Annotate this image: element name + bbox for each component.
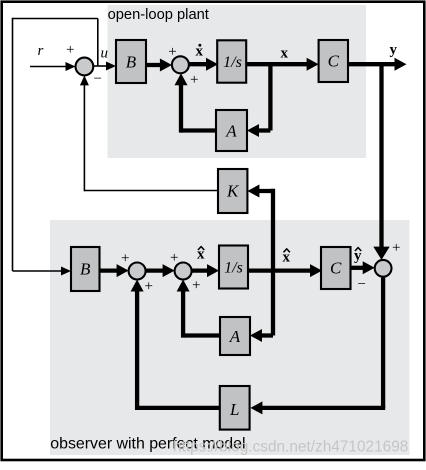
block K: [218, 169, 247, 213]
svg-text:−: −: [358, 277, 366, 293]
wire: observer B to S3 (thick): [100, 264, 129, 277]
svg-text:r: r: [38, 43, 44, 59]
svg-text:https://blog.csdn.net/zh471021: https://blog.csdn.net/zh471021698: [173, 439, 408, 456]
summing junction S2: [172, 56, 189, 73]
block A (observer): [220, 317, 250, 355]
label xhat (before 1/s): [197, 247, 205, 263]
label yhat: [354, 248, 362, 264]
svg-text:+: +: [145, 279, 153, 295]
svg-text:1/s: 1/s: [223, 54, 242, 71]
block 1/s (observer integrator): [219, 246, 248, 289]
svg-text:B: B: [80, 260, 91, 279]
wire: observer A output up into S4 (thick): [177, 280, 220, 338]
wire: y branch down into S5 (thick): [373, 62, 389, 260]
label xdot: [196, 43, 204, 59]
svg-text:C: C: [330, 259, 342, 278]
wire: C to y output (thick): [348, 58, 407, 71]
wire: observer 1/s to C with xhat node (thick): [248, 264, 322, 277]
block C (plant): [319, 40, 348, 82]
svg-text:+: +: [392, 240, 400, 256]
block B (plant): [116, 40, 146, 83]
svg-text:1/s: 1/s: [224, 260, 243, 277]
observer panel: [50, 220, 410, 455]
wire: S5 down and left to L (thick): [250, 276, 385, 414]
wire: xhat tap up into K (thick): [247, 185, 273, 336]
svg-text:+: +: [192, 278, 200, 294]
wire: K output to S1 (thin): [80, 75, 218, 191]
wire: xhat branch down into observer A (thick): [250, 329, 273, 342]
block L: [220, 386, 250, 430]
summing junction S3: [129, 263, 146, 280]
wire: x branch down to A (thick): [247, 62, 270, 137]
svg-text:B: B: [126, 53, 137, 72]
wire: S3 to S4 (thick): [146, 264, 175, 277]
svg-text:A: A: [229, 327, 241, 346]
wire: S4 to observer 1/s (thick): [192, 264, 219, 277]
block A (plant): [216, 110, 247, 151]
block C (observer): [321, 247, 351, 289]
svg-text:−: −: [94, 71, 102, 87]
svg-text:C: C: [328, 52, 340, 71]
wire: S1 to B: [93, 62, 116, 71]
wire: 1/s to C with x node (thick): [247, 58, 319, 71]
block 1/s (plant integrator): [217, 40, 246, 82]
wire: top horizontal (u feedback to observer): [13, 18, 98, 20]
svg-text:+: +: [190, 72, 198, 88]
wire: into observer B: [13, 267, 72, 276]
wire: r input: [30, 62, 76, 71]
svg-text:x: x: [281, 46, 289, 62]
summing junction S4: [175, 263, 192, 280]
svg-text:K: K: [226, 182, 240, 201]
svg-text:open-loop plant: open-loop plant: [108, 7, 209, 23]
svg-text:+: +: [121, 251, 129, 267]
wire: left vertical (u feedback down): [12, 18, 14, 271]
summing junction S5: [375, 260, 392, 277]
wire: observer C to S5 yhat (thick): [351, 261, 375, 274]
svg-text:A: A: [225, 122, 237, 141]
block B (observer): [71, 247, 100, 291]
open-loop plant panel: [108, 5, 367, 158]
svg-text:L: L: [229, 400, 239, 419]
svg-text:+: +: [66, 42, 74, 58]
svg-text:y: y: [390, 42, 398, 58]
label xhat (state node): [283, 249, 291, 266]
wire: S2 to 1/s (thick): [189, 58, 218, 71]
wire: L output up into S3 (thick): [131, 280, 220, 411]
wire: B to S2 (thick): [146, 59, 172, 72]
wire: u tap vertical: [97, 19, 99, 67]
wire: A output up into S2 (thick): [175, 73, 217, 132]
summing junction S1: [76, 58, 94, 76]
svg-text:u: u: [101, 46, 109, 62]
